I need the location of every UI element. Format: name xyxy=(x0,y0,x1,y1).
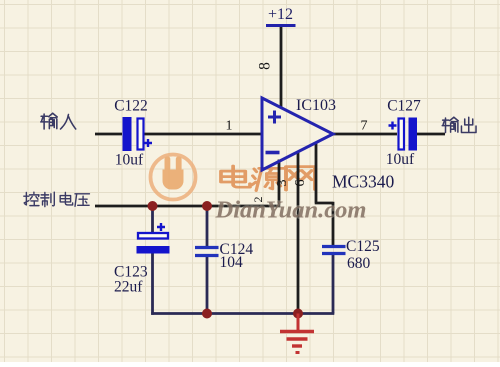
svg-text:7: 7 xyxy=(361,119,368,134)
svg-text:8: 8 xyxy=(257,62,274,70)
svg-text:IC103: IC103 xyxy=(296,97,336,114)
svg-text:1: 1 xyxy=(226,119,233,134)
svg-text:MC3340: MC3340 xyxy=(332,172,394,192)
svg-text:C125: C125 xyxy=(346,238,380,255)
svg-text:3: 3 xyxy=(275,180,290,187)
svg-text:22uf: 22uf xyxy=(114,279,143,296)
svg-text:10uf: 10uf xyxy=(115,152,144,169)
svg-text:C127: C127 xyxy=(387,98,421,115)
svg-text:DianYuan.com: DianYuan.com xyxy=(215,197,367,224)
svg-text:104: 104 xyxy=(220,254,244,271)
svg-text:C122: C122 xyxy=(114,98,148,115)
svg-text:6: 6 xyxy=(293,180,308,187)
svg-text:10uf: 10uf xyxy=(386,151,415,168)
svg-text:680: 680 xyxy=(347,255,371,272)
svg-text:+12: +12 xyxy=(268,6,293,23)
